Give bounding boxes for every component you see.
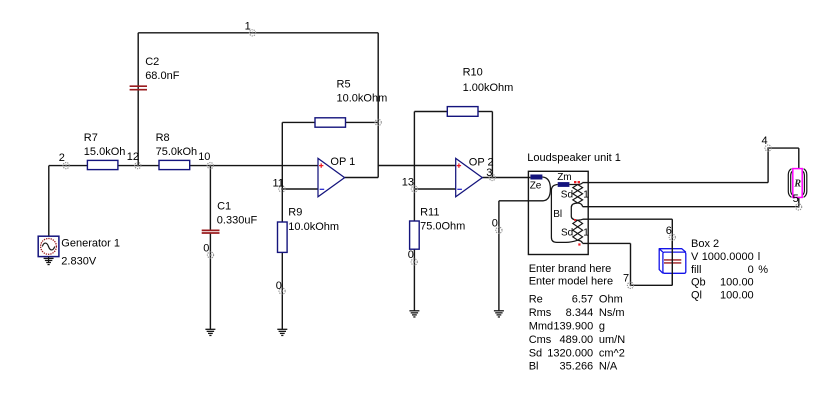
svg-text:Bl: Bl xyxy=(553,209,562,220)
svg-text:0: 0 xyxy=(203,242,209,254)
svg-text:Qb: Qb xyxy=(691,277,706,289)
svg-text:6.57: 6.57 xyxy=(572,293,593,305)
svg-text:R: R xyxy=(793,179,801,190)
svg-text:R10: R10 xyxy=(463,66,483,78)
svg-text:R7: R7 xyxy=(84,132,98,144)
svg-text:C1: C1 xyxy=(217,201,231,213)
svg-text:N/A: N/A xyxy=(599,361,618,373)
svg-text:Mmd: Mmd xyxy=(529,320,553,332)
svg-text:139.900: 139.900 xyxy=(553,320,593,332)
svg-text:6: 6 xyxy=(666,225,672,237)
svg-text:OP 1: OP 1 xyxy=(330,156,355,168)
svg-text:100.00: 100.00 xyxy=(720,277,754,289)
svg-text:Sd: Sd xyxy=(529,347,542,359)
svg-text:1000.0000: 1000.0000 xyxy=(702,251,754,263)
svg-text:10.0kOhm: 10.0kOhm xyxy=(337,93,388,105)
svg-text:3: 3 xyxy=(486,167,492,179)
svg-text:1: 1 xyxy=(245,20,251,32)
svg-text:Box 2: Box 2 xyxy=(691,238,719,250)
svg-text:4: 4 xyxy=(762,135,768,147)
svg-text:75.0kOh: 75.0kOh xyxy=(156,146,198,158)
svg-text:Ql: Ql xyxy=(691,289,702,301)
svg-text:Ns/m: Ns/m xyxy=(599,307,625,319)
svg-text:Cms: Cms xyxy=(529,334,552,346)
svg-text:1320.000: 1320.000 xyxy=(547,347,593,359)
svg-text:R8: R8 xyxy=(156,132,170,144)
svg-text:10.0kOhm: 10.0kOhm xyxy=(288,221,339,233)
svg-text:100.00: 100.00 xyxy=(720,289,754,301)
svg-text:1: 1 xyxy=(583,227,589,238)
svg-text:0: 0 xyxy=(408,249,414,261)
svg-text:Rms: Rms xyxy=(529,307,552,319)
svg-text:68.0nF: 68.0nF xyxy=(145,70,180,82)
svg-text:1.00kOhm: 1.00kOhm xyxy=(463,82,514,94)
svg-text:2: 2 xyxy=(59,152,65,164)
svg-text:C2: C2 xyxy=(145,56,159,68)
svg-text:75.0Ohm: 75.0Ohm xyxy=(420,221,465,233)
svg-text:1: 1 xyxy=(583,189,589,200)
svg-text:fill: fill xyxy=(691,264,701,276)
svg-text:R9: R9 xyxy=(288,207,302,219)
svg-text:V: V xyxy=(691,251,699,263)
svg-text:7: 7 xyxy=(623,273,629,285)
svg-text:Enter model here: Enter model here xyxy=(529,276,613,288)
svg-text:Ze: Ze xyxy=(530,181,542,192)
svg-text:0.330uF: 0.330uF xyxy=(217,215,258,227)
svg-text:l: l xyxy=(758,251,760,263)
svg-text:Bl: Bl xyxy=(529,361,539,373)
svg-text:35.266: 35.266 xyxy=(560,361,594,373)
svg-text:Sd: Sd xyxy=(561,228,573,239)
svg-text:Ohm: Ohm xyxy=(599,293,623,305)
svg-text:12: 12 xyxy=(127,151,139,163)
svg-text:489.00: 489.00 xyxy=(560,334,594,346)
svg-text:um/N: um/N xyxy=(599,334,625,346)
svg-text:13: 13 xyxy=(402,177,414,189)
svg-text:Loudspeaker unit 1: Loudspeaker unit 1 xyxy=(527,152,621,164)
svg-text:0: 0 xyxy=(748,264,754,276)
svg-text:Sd: Sd xyxy=(561,189,573,200)
svg-text:%: % xyxy=(758,264,768,276)
svg-text:2.830V: 2.830V xyxy=(61,256,97,268)
svg-text:11: 11 xyxy=(273,178,284,190)
svg-text:Re: Re xyxy=(529,293,543,305)
svg-text:0: 0 xyxy=(276,280,282,292)
svg-text:R5: R5 xyxy=(337,78,351,90)
svg-text:cm^2: cm^2 xyxy=(599,347,625,359)
svg-text:15.0kOh: 15.0kOh xyxy=(84,146,126,158)
svg-text:g: g xyxy=(599,320,605,332)
svg-text:0: 0 xyxy=(492,218,498,230)
svg-text:5: 5 xyxy=(793,193,799,205)
svg-text:R11: R11 xyxy=(420,207,439,219)
svg-text:Enter brand here: Enter brand here xyxy=(529,263,612,275)
svg-text:Zm: Zm xyxy=(557,172,571,183)
svg-text:10: 10 xyxy=(198,151,210,163)
svg-text:Generator 1: Generator 1 xyxy=(61,237,120,249)
svg-text:8.344: 8.344 xyxy=(566,307,594,319)
